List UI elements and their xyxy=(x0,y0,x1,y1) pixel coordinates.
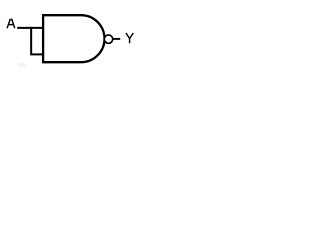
node A label xyxy=(7,20,15,29)
inversion bubble xyxy=(104,35,112,43)
faint print smudge xyxy=(17,62,26,67)
wire riser (branch down from A wire) xyxy=(30,27,32,55)
node Y label xyxy=(126,33,133,43)
wire lower branch to gate bottom input xyxy=(30,53,43,55)
NAND gate U1 body xyxy=(43,15,104,62)
output wire xyxy=(113,38,120,40)
wire from A to gate top input xyxy=(17,27,43,29)
